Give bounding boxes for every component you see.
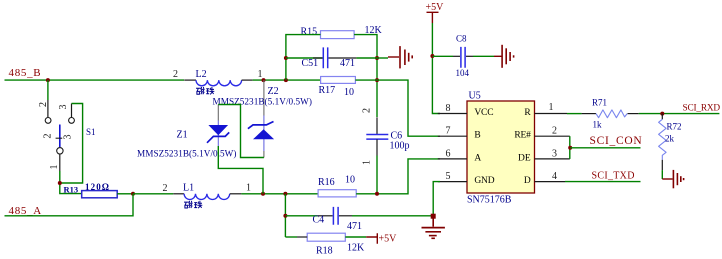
resistor R18 <box>307 233 365 256</box>
zener Z1 <box>137 105 237 159</box>
svg-text:10: 10 <box>345 175 355 186</box>
svg-text:471: 471 <box>347 221 362 232</box>
svg-text:C51: C51 <box>302 58 319 69</box>
svg-text:U5: U5 <box>469 91 481 102</box>
svg-text:2: 2 <box>552 126 557 137</box>
zener Z2 <box>213 80 313 157</box>
svg-text:R: R <box>524 108 531 118</box>
wire SCI_CON <box>570 147 640 149</box>
node junction SCI_CON <box>568 146 572 150</box>
wire pins 2-3 tie <box>569 136 571 159</box>
svg-text:2: 2 <box>38 102 49 107</box>
node junction rail/C4 <box>283 214 287 218</box>
op-amp U5 SN75176B <box>467 91 535 206</box>
wire C6 bottom to A <box>376 156 378 194</box>
node junction B/S1 <box>46 78 50 82</box>
pin 8 VCC <box>438 103 467 114</box>
wire R15 left + rail <box>286 35 321 81</box>
node junction rail/C51 left <box>284 56 288 60</box>
svg-text:6: 6 <box>446 148 451 159</box>
svg-text:R72: R72 <box>667 122 682 132</box>
svg-text:C4: C4 <box>313 215 325 226</box>
svg-text:SCI_TXD: SCI_TXD <box>592 171 635 182</box>
svg-text:3: 3 <box>63 135 74 140</box>
wire R72 to ground <box>661 170 663 179</box>
svg-text:2: 2 <box>173 69 178 80</box>
switch S1 <box>38 100 74 171</box>
node junction S1/R13 <box>58 181 62 185</box>
wire S1 pin1 to junction <box>60 171 82 194</box>
node junction B/R15 rail <box>284 78 288 82</box>
svg-text:MMSZ5231B(5.1V/0.5W): MMSZ5231B(5.1V/0.5W) <box>137 148 237 158</box>
svg-text:SN75176B: SN75176B <box>467 195 512 206</box>
ground below U5 <box>422 216 445 238</box>
wire junction to L1 <box>133 193 173 195</box>
capacitor C8 <box>453 34 473 79</box>
node junction R71/R72 <box>660 112 664 116</box>
node junction A/R16 left <box>283 192 287 196</box>
wire R18 right <box>345 236 366 238</box>
node junction A/C6 <box>375 192 379 196</box>
svg-text:5: 5 <box>446 171 451 182</box>
svg-text:SCI_CON: SCI_CON <box>590 135 643 147</box>
node junction rail/B <box>375 78 379 82</box>
ground below R72 <box>662 170 683 188</box>
svg-text:3: 3 <box>58 105 69 110</box>
svg-text:R13: R13 <box>64 184 79 194</box>
svg-text:B: B <box>474 131 480 141</box>
wire Z1 cathode to A line <box>218 146 263 194</box>
resistor R15 <box>301 25 383 39</box>
wire C4 right to gnd node <box>352 215 433 217</box>
svg-text:1: 1 <box>549 102 554 113</box>
svg-text:104: 104 <box>456 68 470 78</box>
wire S1 pin2 drop <box>47 80 49 100</box>
wire C51 to ground <box>377 57 388 59</box>
resistor R71 <box>582 98 639 130</box>
wire R17 right to corner <box>355 80 440 136</box>
svg-text:2k: 2k <box>665 134 675 144</box>
resistor R16 <box>318 175 356 197</box>
svg-text:100p: 100p <box>390 141 410 152</box>
wire L2 to R17 <box>253 79 321 81</box>
wire S1 pin3 loop <box>61 104 83 184</box>
inductor L2 <box>173 69 263 94</box>
pin 1 R <box>535 102 568 114</box>
svg-text:+5V: +5V <box>379 234 398 245</box>
svg-text:L2: L2 <box>196 69 207 80</box>
wire rail A down <box>284 194 286 237</box>
wire GND pin to gnd node <box>433 182 440 217</box>
svg-text:C8: C8 <box>456 34 467 44</box>
wire R16 right to pin A <box>356 159 440 194</box>
svg-text:R17: R17 <box>319 85 336 96</box>
svg-text:A: A <box>474 153 481 163</box>
svg-text:120Ω: 120Ω <box>85 182 110 192</box>
wire SCI_TXD <box>565 181 641 183</box>
svg-text:R15: R15 <box>301 27 318 38</box>
pin 4 D <box>535 171 566 182</box>
svg-text:R71: R71 <box>592 98 607 108</box>
wire C8 right <box>473 55 494 57</box>
svg-text:L1: L1 <box>183 183 194 194</box>
svg-text:SCI_RXD: SCI_RXD <box>683 104 721 114</box>
wire C8 left <box>432 55 453 57</box>
svg-text:Z1: Z1 <box>177 130 188 141</box>
wire R18 left <box>285 236 297 238</box>
svg-text:8: 8 <box>446 103 451 114</box>
capacitor C4 <box>285 207 362 232</box>
pin 2 RE# <box>535 126 570 137</box>
svg-text:7: 7 <box>446 126 451 137</box>
svg-text:R16: R16 <box>318 177 335 188</box>
svg-text:3: 3 <box>552 148 557 159</box>
svg-text:12K: 12K <box>347 243 365 254</box>
svg-text:S1: S1 <box>86 127 96 137</box>
svg-text:1: 1 <box>362 160 373 165</box>
pin 6 A <box>438 148 467 159</box>
svg-text:485_A: 485_A <box>9 205 42 217</box>
svg-text:1: 1 <box>49 165 60 170</box>
svg-text:471: 471 <box>340 58 355 69</box>
capacitor C6 <box>362 108 410 165</box>
svg-text:2: 2 <box>163 183 168 194</box>
resistor R72 <box>659 114 682 171</box>
node junction gnd <box>431 214 436 219</box>
pin 5 GND <box>438 171 467 182</box>
svg-text:GND: GND <box>474 176 494 186</box>
wire R13 right <box>117 193 133 195</box>
wire 485_B horizontal <box>5 79 185 81</box>
wire +5V down to U5 <box>432 23 440 114</box>
svg-text:Z2: Z2 <box>268 86 279 97</box>
svg-text:R18: R18 <box>316 246 333 257</box>
node junction +5V/C8 <box>430 54 434 58</box>
svg-text:D: D <box>524 176 531 186</box>
svg-text:+5V: +5V <box>426 2 445 13</box>
svg-text:1k: 1k <box>593 120 603 130</box>
net label +5V top <box>426 2 445 23</box>
pin 7 B <box>438 126 467 137</box>
ground near C51 <box>388 46 412 68</box>
wire R71 to junction / SCI_RXD <box>639 113 720 115</box>
wire 485_A <box>5 194 134 216</box>
resistor R17 <box>319 77 356 99</box>
svg-text:485_B: 485_B <box>9 67 42 79</box>
node junction A/Z1 <box>261 192 265 196</box>
node junction R13/485_A/L1 <box>131 192 135 196</box>
wire Z2 anode to Z1 anode <box>218 105 264 158</box>
resistor R13 <box>64 182 118 198</box>
node junction B/Z2 <box>262 78 266 82</box>
svg-text:RE#: RE# <box>514 131 531 141</box>
wire R15 right + rail <box>354 35 377 117</box>
svg-text:1: 1 <box>258 69 263 80</box>
ground right of C8 <box>494 45 514 68</box>
inductor L1 <box>163 183 252 209</box>
node junction rail/C51 right <box>375 56 379 60</box>
svg-text:2: 2 <box>362 108 373 113</box>
pin 3 DE <box>535 148 570 159</box>
svg-text:2: 2 <box>43 134 54 139</box>
svg-text:1: 1 <box>246 183 251 194</box>
wire pin1 to R71 <box>567 113 582 115</box>
wire L1 to junction <box>241 193 318 195</box>
capacitor C51 <box>286 47 377 69</box>
net label +5V right of R18 <box>366 233 397 244</box>
svg-text:VCC: VCC <box>474 108 493 118</box>
svg-text:10: 10 <box>344 87 354 98</box>
svg-text:4: 4 <box>552 171 557 182</box>
svg-text:DE: DE <box>518 153 531 163</box>
